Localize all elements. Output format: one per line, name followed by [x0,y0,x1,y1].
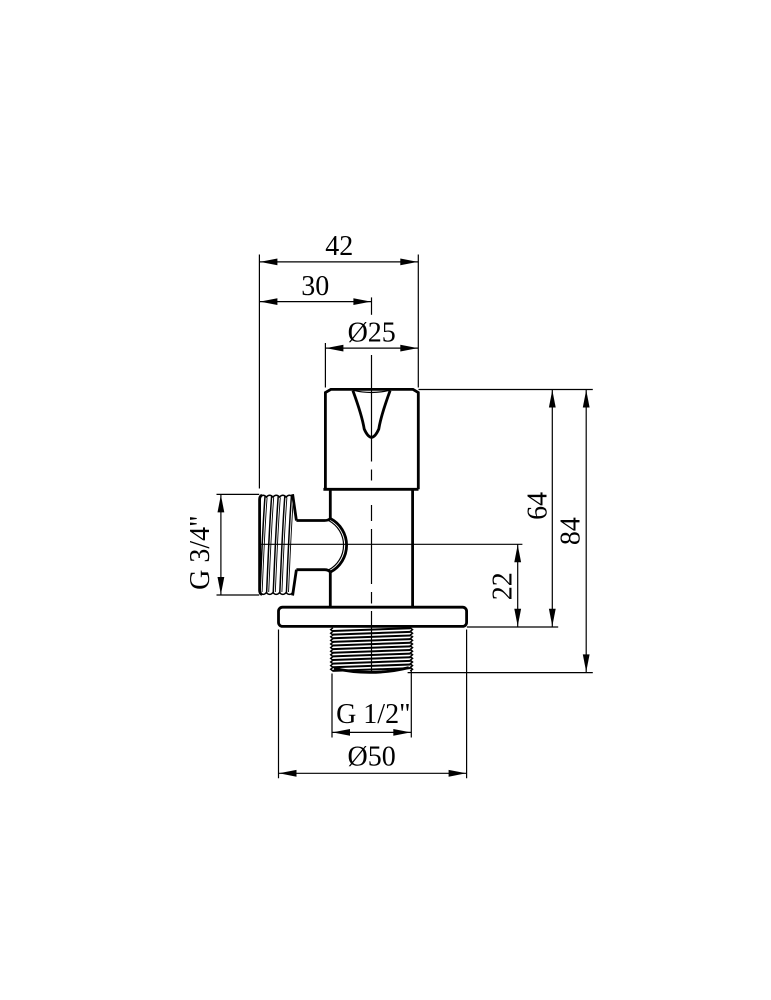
side port neck [296,519,330,573]
G 1/2 dimension extension lines [332,671,411,738]
G 3/4 threaded port outline [260,494,297,595]
dimension 22 [487,544,521,627]
top extension line for 64/84 dimensions [419,389,593,391]
G 1/2 thread edge crests [331,628,413,671]
handle V notch [353,391,390,438]
dimension 84 [556,390,590,673]
svg-text:G 1/2": G 1/2" [336,699,410,730]
G 3/4 thread lines [260,497,294,594]
svg-text:Ø25: Ø25 [348,317,396,348]
dimension 64 [523,390,556,627]
valve handle (top cap with V notch) [325,389,418,489]
svg-text:84: 84 [556,517,587,545]
G 3/4 dimension extension lines [217,494,260,595]
dimension G 1/2 [332,699,411,736]
dimension D50 [279,742,467,777]
valve body vertical cylinder [330,489,412,606]
svg-text:Ø50: Ø50 [347,742,395,773]
G 3/4 thread crests top [260,495,293,497]
horizontal centerline of side port [261,543,522,545]
svg-text:22: 22 [487,572,518,600]
D50 dimension extension lines [279,630,467,779]
V notch top arc [353,390,390,392]
dimension 30 [259,271,371,315]
G 1/2 thread bottom edge [334,668,409,673]
42 dimension extension lines [259,255,418,489]
side port ball joint outer arc [330,519,346,573]
G 1/2 bottom threads [333,628,411,671]
svg-text:G 3/4": G 3/4" [185,515,216,589]
dimension D25 [325,317,418,387]
svg-text:42: 42 [325,231,353,262]
flange disc [279,607,467,626]
dimension 42 [259,231,418,265]
svg-text:30: 30 [301,271,329,302]
flange bottom extension line for 22/64 [467,626,558,628]
svg-text:64: 64 [523,492,554,520]
G 3/4 thread crests bottom [260,593,293,595]
handle bottom edge [323,488,418,491]
vertical centerline of valve body [371,355,373,673]
thread bottom extension line for 84 [408,672,593,674]
side port ball joint inner arc [329,521,344,570]
dimension G 3/4 [185,494,224,595]
